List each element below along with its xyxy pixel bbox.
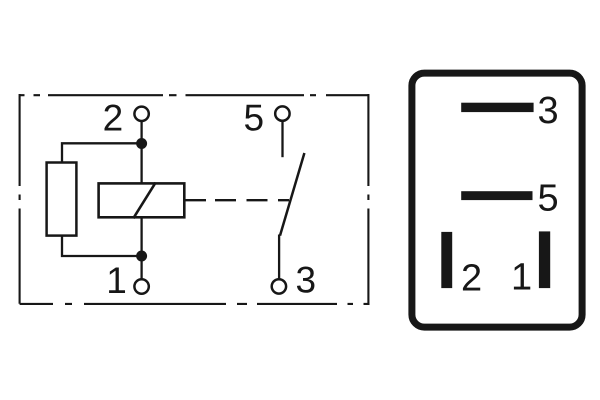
pin 2 blade [441, 232, 452, 288]
svg-text:3: 3 [538, 90, 559, 132]
relay enclosure boundary (dash-dot box) [20, 94, 370, 304]
junction top [136, 138, 147, 149]
mechanical link (dashed) [186, 199, 290, 201]
relay socket outline [412, 73, 582, 327]
resistor [47, 163, 77, 236]
wire terminal2 to coil [140, 121, 142, 183]
wire lever to terminal3 [278, 235, 280, 280]
svg-text:3: 3 [296, 260, 317, 301]
relay coil [99, 183, 185, 217]
junction bottom [136, 251, 147, 262]
wire resistor to bottom junction [62, 236, 142, 256]
pin 5 blade [461, 191, 532, 200]
svg-text:2: 2 [103, 97, 124, 138]
terminal 2 circle [134, 107, 148, 121]
wire top junction to resistor [62, 143, 142, 162]
terminal 5 circle [275, 106, 289, 120]
wire terminal5 down [281, 121, 283, 157]
pin 1 blade [539, 231, 550, 288]
pin 3 blade [461, 103, 533, 112]
terminal 1 circle [134, 279, 148, 293]
coil diagonal stroke [133, 183, 155, 219]
svg-text:5: 5 [244, 97, 265, 138]
svg-text:2: 2 [461, 258, 482, 300]
svg-text:5: 5 [538, 178, 559, 220]
terminal 3 circle [272, 279, 286, 293]
svg-text:1: 1 [106, 260, 127, 301]
wire coil to terminal1 [140, 218, 142, 280]
svg-text:1: 1 [511, 257, 532, 299]
switch contact lever [280, 153, 304, 236]
